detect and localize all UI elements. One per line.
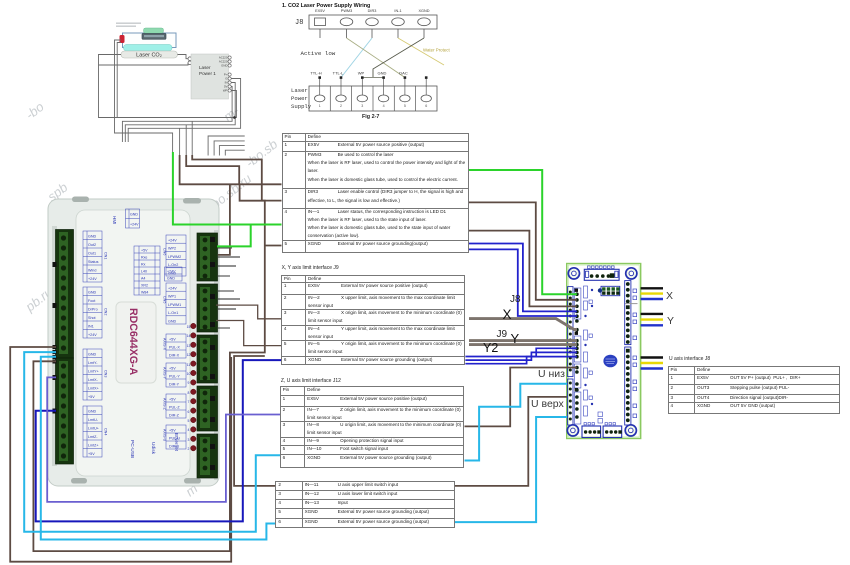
svg-text:DIR-X: DIR-X [169, 354, 180, 358]
svg-text:Power: Power [291, 95, 308, 102]
svg-text:AXIS-X: AXIS-X [163, 338, 167, 351]
svg-text:LmtZ+: LmtZ+ [88, 444, 99, 448]
svg-text:Fig 2-7: Fig 2-7 [362, 114, 379, 120]
svg-text:L-On1: L-On1 [168, 311, 178, 315]
svg-text:DIR3: DIR3 [368, 9, 377, 13]
svg-text:GND: GND [168, 271, 177, 275]
svg-text:XR2: XR2 [141, 284, 148, 288]
svg-text:GND: GND [378, 71, 387, 76]
svg-text:10: 10 [187, 372, 191, 376]
svg-text:+5V: +5V [169, 367, 176, 371]
svg-text:CN3: CN3 [104, 370, 108, 377]
svg-text:IN-1: IN-1 [394, 9, 401, 13]
svg-text:Rx: Rx [141, 263, 146, 267]
svg-text:1. CO2 Laser Power Supply Wiri: 1. CO2 Laser Power Supply Wiring [282, 3, 370, 9]
svg-text:CN2: CN2 [104, 308, 108, 315]
svg-text:4: 4 [383, 104, 385, 108]
svg-text:DIR-Z: DIR-Z [169, 414, 180, 418]
svg-text:3: 3 [188, 438, 190, 442]
svg-text:GND: GND [221, 64, 227, 68]
svg-text:+5V: +5V [169, 398, 176, 402]
svg-text:DIR-Y: DIR-Y [169, 383, 180, 387]
svg-text:CN1: CN1 [104, 252, 108, 259]
svg-text:LmtU+: LmtU+ [88, 427, 99, 431]
svg-text:Wind: Wind [88, 269, 96, 273]
svg-text:Laser: Laser [199, 65, 211, 70]
svg-text:+24V: +24V [88, 277, 97, 281]
svg-text:HMI: HMI [112, 216, 117, 224]
svg-text:TTL-L: TTL-L [333, 71, 344, 76]
svg-text:EX5V: EX5V [315, 9, 325, 13]
svg-text:LmtY+: LmtY+ [88, 370, 99, 374]
svg-text:GND: GND [88, 353, 97, 357]
svg-text:Power 1: Power 1 [199, 71, 216, 76]
svg-text:9: 9 [188, 381, 190, 385]
svg-text:Water Protect: Water Protect [423, 48, 450, 53]
svg-text:2: 2 [188, 447, 190, 451]
svg-text:L40: L40 [141, 270, 147, 274]
svg-text:LmtX+: LmtX+ [88, 387, 99, 391]
svg-text:LmtX-: LmtX- [88, 378, 99, 382]
svg-text:12: 12 [187, 353, 191, 357]
svg-text:5: 5 [404, 104, 406, 108]
svg-text:7: 7 [188, 400, 190, 404]
svg-text:AXIS-U: AXIS-U [163, 429, 167, 442]
svg-text:Rxe: Rxe [141, 256, 147, 260]
svg-text:+24V: +24V [130, 223, 139, 227]
svg-text:J8: J8 [295, 19, 303, 27]
svg-text:LmtZ-: LmtZ- [88, 435, 98, 439]
svg-text:DAC: DAC [399, 71, 408, 76]
svg-text:PUL-X: PUL-X [169, 346, 180, 350]
svg-text:6: 6 [425, 104, 427, 108]
svg-text:11: 11 [187, 363, 191, 367]
svg-text:LPWM1: LPWM1 [168, 303, 181, 307]
svg-text:PUL-Y: PUL-Y [169, 375, 180, 379]
svg-text:WP: WP [358, 71, 365, 76]
svg-text:1: 1 [319, 104, 321, 108]
svg-text:-bo: -bo [23, 99, 47, 122]
svg-text:13: 13 [187, 344, 191, 348]
svg-text:GND: GND [167, 277, 175, 281]
svg-text:2: 2 [340, 104, 342, 108]
svg-text:5: 5 [188, 419, 190, 423]
svg-text:WP2: WP2 [168, 247, 176, 251]
svg-text:AXIS-Y: AXIS-Y [163, 367, 167, 380]
svg-text:IN1: IN1 [88, 325, 94, 329]
svg-text:+24V: +24V [168, 239, 177, 243]
svg-text:PC-USB: PC-USB [129, 440, 135, 458]
svg-text:L-On2: L-On2 [168, 263, 178, 267]
svg-text:WP: WP [223, 89, 228, 93]
svg-text:8: 8 [188, 391, 190, 395]
svg-text:Active low: Active low [301, 50, 336, 57]
svg-text:LPWM2: LPWM2 [168, 255, 181, 259]
svg-text:15: 15 [187, 325, 191, 329]
svg-text:+5V: +5V [141, 249, 148, 253]
svg-text:DrPro: DrPro [88, 308, 98, 312]
svg-text:Ethernet: Ethernet [173, 433, 179, 452]
svg-text:+5V: +5V [88, 395, 95, 399]
svg-text:Foot: Foot [88, 299, 95, 303]
svg-text:GND: GND [130, 213, 138, 217]
svg-text:4: 4 [188, 428, 190, 432]
svg-text:+5V: +5V [169, 338, 176, 342]
svg-text:3: 3 [361, 104, 363, 108]
svg-text:Supply: Supply [291, 103, 312, 110]
svg-text:+5V: +5V [169, 429, 176, 433]
svg-text:GND: GND [88, 291, 97, 295]
svg-text:GND: GND [88, 235, 97, 239]
svg-text:+5V: +5V [88, 452, 95, 456]
svg-text:+24V: +24V [168, 287, 177, 291]
svg-text:PWM3: PWM3 [341, 9, 352, 13]
svg-text:Status: Status [88, 260, 99, 264]
svg-text:Out1: Out1 [88, 252, 96, 256]
svg-text:RDC644XG-A: RDC644XG-A [127, 308, 139, 375]
svg-text:LmtU-: LmtU- [88, 418, 99, 422]
svg-text:CN6: CN6 [163, 248, 167, 255]
svg-text:TTL-H: TTL-H [310, 71, 321, 76]
svg-text:AXIS-Z: AXIS-Z [163, 398, 167, 411]
svg-text:GND: GND [168, 319, 177, 323]
svg-text:Shot: Shot [88, 316, 96, 320]
svg-text:LmtY-: LmtY- [88, 361, 98, 365]
svg-text:W84: W84 [141, 291, 148, 295]
svg-text:Udisk: Udisk [150, 442, 156, 455]
svg-text:WP1: WP1 [168, 295, 176, 299]
svg-text:Out2: Out2 [88, 243, 96, 247]
svg-text:Laser CO₂: Laser CO₂ [136, 53, 162, 59]
svg-text:XGND: XGND [419, 9, 430, 13]
svg-text:CN5: CN5 [163, 296, 167, 303]
svg-text:CN4: CN4 [104, 428, 108, 435]
svg-text:GND: GND [88, 410, 97, 414]
svg-text:+24V: +24V [88, 333, 97, 337]
svg-text:PUL-Z: PUL-Z [169, 406, 180, 410]
svg-text:Laser: Laser [291, 87, 308, 94]
svg-text:6: 6 [188, 410, 190, 414]
svg-text:A4: A4 [141, 277, 145, 281]
svg-text:14: 14 [187, 334, 191, 338]
